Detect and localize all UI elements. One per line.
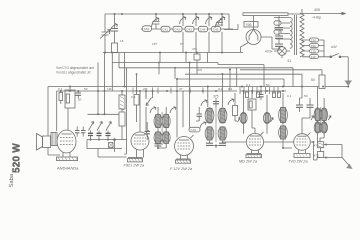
IF transformer T1 winding 1a	[154, 114, 162, 128]
wire switch drop	[347, 57, 349, 81]
trimmer capacitor C4	[215, 19, 223, 29]
capacitor C8	[275, 36, 283, 44]
coil L7	[318, 142, 324, 148]
capacitor Cf	[97, 131, 102, 140]
svg-text:1M: 1M	[107, 87, 112, 91]
transformer TR1 taps	[274, 18, 290, 40]
svg-text:470: 470	[314, 144, 319, 148]
svg-text:375: 375	[213, 95, 219, 99]
IF transformer T4 winding 2b	[321, 122, 328, 133]
transformer TR1 secondary	[300, 13, 304, 57]
IF transformer T2 winding 2b	[218, 127, 227, 141]
output tube V1	[57, 130, 76, 157]
wire top-left corner drop	[104, 14, 106, 30]
svg-text:TVD 2W 2a: TVD 2W 2a	[288, 160, 308, 164]
coil L5	[238, 90, 248, 134]
capacitor C21	[296, 98, 303, 112]
wire staircase y79	[176, 79, 284, 87]
wire top rail	[105, 13, 229, 15]
trimmer arrow T4a	[311, 116, 314, 120]
tube V3	[175, 135, 194, 159]
wire T1 stubs	[158, 107, 166, 148]
resistor R8	[233, 93, 238, 121]
trimmer arrow A2	[193, 17, 200, 25]
padder label box Pa3	[173, 26, 182, 32]
trimmer capacitor C2	[110, 14, 119, 43]
svg-text:2M: 2M	[143, 87, 148, 91]
IF transformer T1 winding 1b	[162, 114, 170, 128]
wire staircase y62.5	[112, 63, 218, 65]
svg-text:0,1: 0,1	[228, 87, 233, 91]
IF transformer T4 winding 1b	[321, 108, 328, 121]
svg-text:520 W: 520 W	[12, 143, 23, 173]
wire output loop	[313, 142, 342, 160]
wire x207 drop	[207, 53, 209, 63]
IF transformer T1 winding 2b	[162, 132, 170, 144]
picket capacitor row mid	[133, 88, 203, 94]
capacitor C20	[259, 90, 264, 100]
trimmer arrow T1b	[170, 107, 176, 113]
jack J1	[109, 140, 115, 152]
svg-text:125: 125	[311, 49, 316, 53]
svg-text:Von C7G abgeschaltet und: Von C7G abgeschaltet und	[56, 66, 94, 70]
wire HT line with arrow	[302, 9, 347, 15]
svg-text:50: 50	[266, 83, 270, 87]
svg-text:F 12V 2W 2a: F 12V 2W 2a	[170, 167, 192, 171]
svg-text:16?: 16?	[152, 42, 157, 46]
svg-text:0,5: 0,5	[131, 95, 136, 99]
padder label box Pa5	[199, 26, 208, 32]
variable capacitor C1	[100, 30, 110, 53]
IF transformer T2 winding 2a	[205, 127, 214, 141]
resistor R1	[112, 43, 118, 53]
socket base V1	[57, 157, 78, 161]
capacitor C18	[219, 143, 226, 145]
trimmer arrow V3	[200, 122, 206, 128]
capacitor C16	[213, 102, 219, 104]
svg-text:150: 150	[311, 44, 316, 48]
wire misc stubs	[146, 91, 199, 127]
capacitor C10	[134, 74, 139, 122]
wire bus y91	[57, 90, 237, 92]
anode load box R3	[65, 87, 75, 131]
socket base V4	[246, 154, 262, 158]
svg-text:16: 16	[120, 39, 124, 43]
loudspeaker LS1	[37, 134, 51, 151]
wire V5 top	[300, 87, 303, 134]
svg-text:C31: C31	[191, 128, 197, 132]
capacitor C8b	[275, 44, 283, 51]
svg-text:C44: C44	[200, 28, 206, 32]
svg-text:+HSp: +HSp	[312, 16, 321, 20]
wire tap column	[324, 40, 330, 57]
tube V5	[294, 133, 311, 154]
capacitor C12	[145, 122, 151, 140]
svg-text:0,2: 0,2	[218, 87, 223, 91]
capacitor C13	[197, 107, 203, 121]
wire staircase y69.5	[240, 70, 322, 75]
IF transformer T3 winding b	[279, 126, 288, 140]
svg-text:50: 50	[84, 87, 88, 91]
svg-text:4V3+: 4V3+	[265, 50, 273, 54]
wire rail left drop	[47, 87, 49, 134]
label box V3 grid	[189, 127, 200, 132]
resistor R5 stack	[119, 109, 125, 140]
IF transformer T3 winding a	[279, 107, 288, 123]
grid capacitor Cv1	[75, 127, 80, 137]
wire pot bar	[88, 113, 120, 115]
trimmer capacitor C3	[152, 14, 160, 29]
wire T4 core	[320, 107, 322, 133]
wire rectifier cathode	[261, 37, 278, 49]
svg-text:C42: C42	[174, 28, 180, 32]
resistor R30	[319, 75, 325, 89]
capacitor Cg	[106, 131, 111, 140]
wire rectifier top	[243, 13, 288, 16]
IF transformer T2 winding 1a	[205, 108, 214, 123]
transformer TR1 primary	[290, 18, 292, 49]
pilot lamp LP1	[274, 47, 290, 58]
wire padder to railB	[183, 32, 222, 53]
mains tap 220	[302, 38, 324, 42]
resistor R2	[194, 54, 200, 60]
wire rail14 end drop	[224, 14, 238, 30]
IF transformer T4 winding 2a	[314, 122, 321, 133]
IF transformer T2 winding 1b	[218, 108, 227, 123]
svg-text:C45: C45	[213, 28, 219, 32]
wire staircase y64.5	[218, 65, 264, 87]
svg-text:Von EL! abgeschaltet Jd: Von EL! abgeschaltet Jd	[56, 71, 91, 75]
svg-text:0,1: 0,1	[58, 87, 63, 91]
potentiometer P1 arrow1	[89, 122, 94, 131]
tube V2	[131, 130, 149, 158]
resistor R6 box	[248, 90, 256, 133]
wire pot feeds	[98, 53, 105, 115]
switch S1	[330, 54, 348, 58]
transformer TR1 core	[294, 15, 296, 55]
rectifier tube V6	[246, 30, 261, 45]
ground arrow	[342, 158, 353, 170]
capacitor C17	[206, 143, 213, 145]
IF transformer T4 winding 1a	[314, 108, 321, 121]
svg-text:3?: 3?	[179, 87, 183, 91]
svg-text:0,1: 0,1	[287, 94, 292, 98]
trimmer arrow A3	[206, 17, 213, 25]
wire bus y91 drop	[56, 91, 58, 131]
mains tap 150	[302, 44, 324, 48]
capacitor Ce	[88, 131, 93, 140]
resistor row hooks	[246, 92, 281, 98]
svg-text:a4V: a4V	[331, 45, 338, 49]
wire T4 feeds	[318, 87, 325, 142]
wire T2 feeds	[208, 70, 230, 108]
label values scatter	[58, 39, 308, 99]
potentiometer P1 arrow2	[97, 122, 102, 131]
wire staircase y74	[185, 74, 302, 86]
trimmer arrow T2a	[201, 100, 207, 106]
resistor R4 stack	[119, 91, 125, 110]
socket base V3	[176, 159, 191, 163]
svg-text:C51: C51	[144, 27, 150, 31]
wire step x175	[174, 68, 176, 79]
diode D1	[146, 91, 152, 132]
socket base V5	[294, 154, 311, 158]
wire x237 drop	[236, 68, 238, 87]
svg-text:766: 766	[246, 23, 252, 27]
svg-text:5?: 5?	[180, 42, 184, 46]
resistor Rb	[59, 91, 63, 104]
wire staircase y67.5	[119, 68, 293, 87]
padder label box Pa4	[185, 26, 194, 32]
svg-text:0,1: 0,1	[246, 83, 251, 87]
wire x124 drop	[119, 53, 125, 87]
svg-text:50: 50	[304, 94, 308, 98]
socket base V2	[128, 158, 143, 162]
capacitor C9	[76, 91, 82, 99]
svg-text:470: 470	[314, 154, 319, 158]
wire V2 top	[139, 91, 141, 132]
wire V3 feeds	[177, 63, 190, 138]
potentiometer P1 arrow3	[106, 122, 111, 131]
wire x112 drop	[111, 53, 113, 92]
capacitor C22	[302, 98, 314, 118]
grid capacitor Cv2	[81, 127, 86, 137]
svg-text:50: 50	[311, 78, 315, 82]
wire T3 stubs	[283, 93, 292, 148]
capacitor C15	[155, 144, 162, 146]
wire pot bottom bus	[87, 140, 127, 149]
svg-text:C43: C43	[186, 28, 192, 32]
wire padder drops	[183, 14, 222, 26]
resistor R7	[318, 152, 324, 158]
wire T2 core	[215, 106, 217, 142]
svg-text:51: 51	[288, 59, 292, 63]
svg-text:4?0: 4?0	[197, 68, 202, 72]
wire rail B	[103, 52, 243, 54]
svg-text:47: 47	[78, 98, 82, 102]
wire rectifier anode	[241, 43, 249, 53]
svg-text:Saba: Saba	[9, 173, 15, 187]
svg-text:F921 2W 2a: F921 2W 2a	[124, 164, 145, 168]
wire x160 drop	[159, 53, 161, 63]
trimmer arrow A1	[180, 17, 187, 25]
svg-text:MD 2W 2a: MD 2W 2a	[239, 160, 257, 164]
wire speaker links	[48, 134, 60, 156]
svg-text:405: 405	[314, 8, 320, 12]
label HT voltage	[312, 8, 321, 20]
IF transformer T1 winding 2a	[154, 132, 162, 144]
rectifier label	[244, 22, 258, 28]
padder label box Pa1	[143, 26, 152, 32]
tube V4	[246, 132, 263, 153]
svg-text:AND4ANDa: AND4ANDa	[56, 166, 79, 171]
padder label box Pa6	[212, 26, 221, 32]
wire pad row	[141, 28, 233, 30]
wire T2 bottom	[210, 141, 223, 148]
wire V2 cathode loop	[98, 68, 127, 157]
wire step x159	[158, 63, 160, 75]
output transformer TR2	[51, 133, 57, 146]
svg-text:47k: 47k	[192, 47, 197, 51]
wire x197 drop	[196, 53, 198, 75]
svg-text:220: 220	[311, 38, 316, 42]
trimmer arrow T4b	[328, 116, 331, 120]
coil L6	[263, 95, 273, 134]
svg-text:110: 110	[311, 55, 316, 59]
wire T1 core	[161, 112, 163, 145]
trimmer arrow T1a	[150, 107, 156, 113]
wire heater bus	[222, 141, 313, 143]
mains tap 125	[302, 49, 324, 53]
chassis symbol	[345, 81, 353, 87]
wire x186 drop	[185, 53, 187, 63]
trimmer arrow T2b	[228, 99, 234, 105]
trimmer arrow A4	[219, 17, 226, 25]
picket capacitor row	[240, 87, 286, 94]
wire main rail	[48, 86, 349, 88]
capacitor C7	[275, 28, 283, 37]
padder label box Pa2	[161, 26, 170, 32]
svg-text:C41: C41	[162, 28, 168, 32]
mains tap 110	[302, 55, 324, 59]
wire junction dots	[60, 13, 349, 159]
